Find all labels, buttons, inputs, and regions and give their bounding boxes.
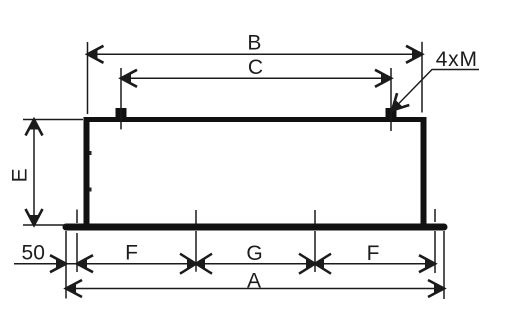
base plate flange [66, 224, 444, 231]
dimension line C [121, 77, 391, 79]
arrow B right [406, 46, 422, 63]
extension line B right [421, 42, 423, 113]
arrow 50 right [50, 255, 66, 272]
svg-text:50: 50 [22, 241, 45, 264]
extension line B left [87, 42, 89, 114]
leader arrow 4xM [392, 93, 409, 110]
arrow junction G-F2 [299, 254, 331, 274]
enclosure right wall [421, 117, 427, 227]
extension line F-G [195, 231, 197, 272]
svg-text:B: B [247, 32, 261, 55]
svg-text:4xM: 4xM [436, 48, 478, 71]
arrow A left [66, 280, 82, 297]
left wall bump upper [89, 151, 92, 155]
dimension line A [66, 288, 444, 290]
extension line F right [434, 231, 436, 273]
enclosure top edge [84, 117, 427, 122]
svg-text:F: F [125, 242, 138, 265]
stud centerline left [120, 68, 122, 129]
arrow F1 left [77, 255, 93, 272]
arrow B left [88, 46, 104, 63]
svg-text:F: F [367, 242, 380, 265]
svg-text:C: C [248, 56, 263, 79]
extension line E top [23, 119, 83, 121]
extension line A left [65, 231, 67, 299]
enclosure left wall [84, 117, 90, 227]
arrow F2 right [419, 255, 435, 272]
extension line E bottom [23, 224, 66, 226]
mounting stud left [116, 108, 127, 117]
svg-text:A: A [247, 270, 261, 293]
extension line G-F [314, 231, 316, 272]
arrow E down [26, 209, 43, 225]
extension line A right [443, 231, 445, 299]
arrow C left [121, 70, 137, 87]
dimension line 50-F-G-F [14, 263, 435, 265]
plate tick x77 [76, 210, 78, 224]
stud centerline right [390, 68, 392, 131]
mounting stud right [386, 108, 397, 117]
arrow C right [375, 70, 391, 87]
left wall bump lower [89, 188, 92, 192]
leader line 4xM [392, 70, 479, 111]
svg-text:E: E [9, 168, 32, 182]
plate tick x196 [195, 210, 197, 224]
plate tick x435 [434, 209, 436, 222]
arrow junction F1-G [180, 254, 212, 274]
extension line F left [76, 233, 78, 272]
svg-text:G: G [246, 242, 262, 265]
arrow E up [26, 120, 43, 136]
dimension line B [88, 53, 423, 55]
dimension line E [33, 120, 35, 226]
plate tick x315 [314, 210, 316, 224]
arrow A right [428, 280, 444, 297]
